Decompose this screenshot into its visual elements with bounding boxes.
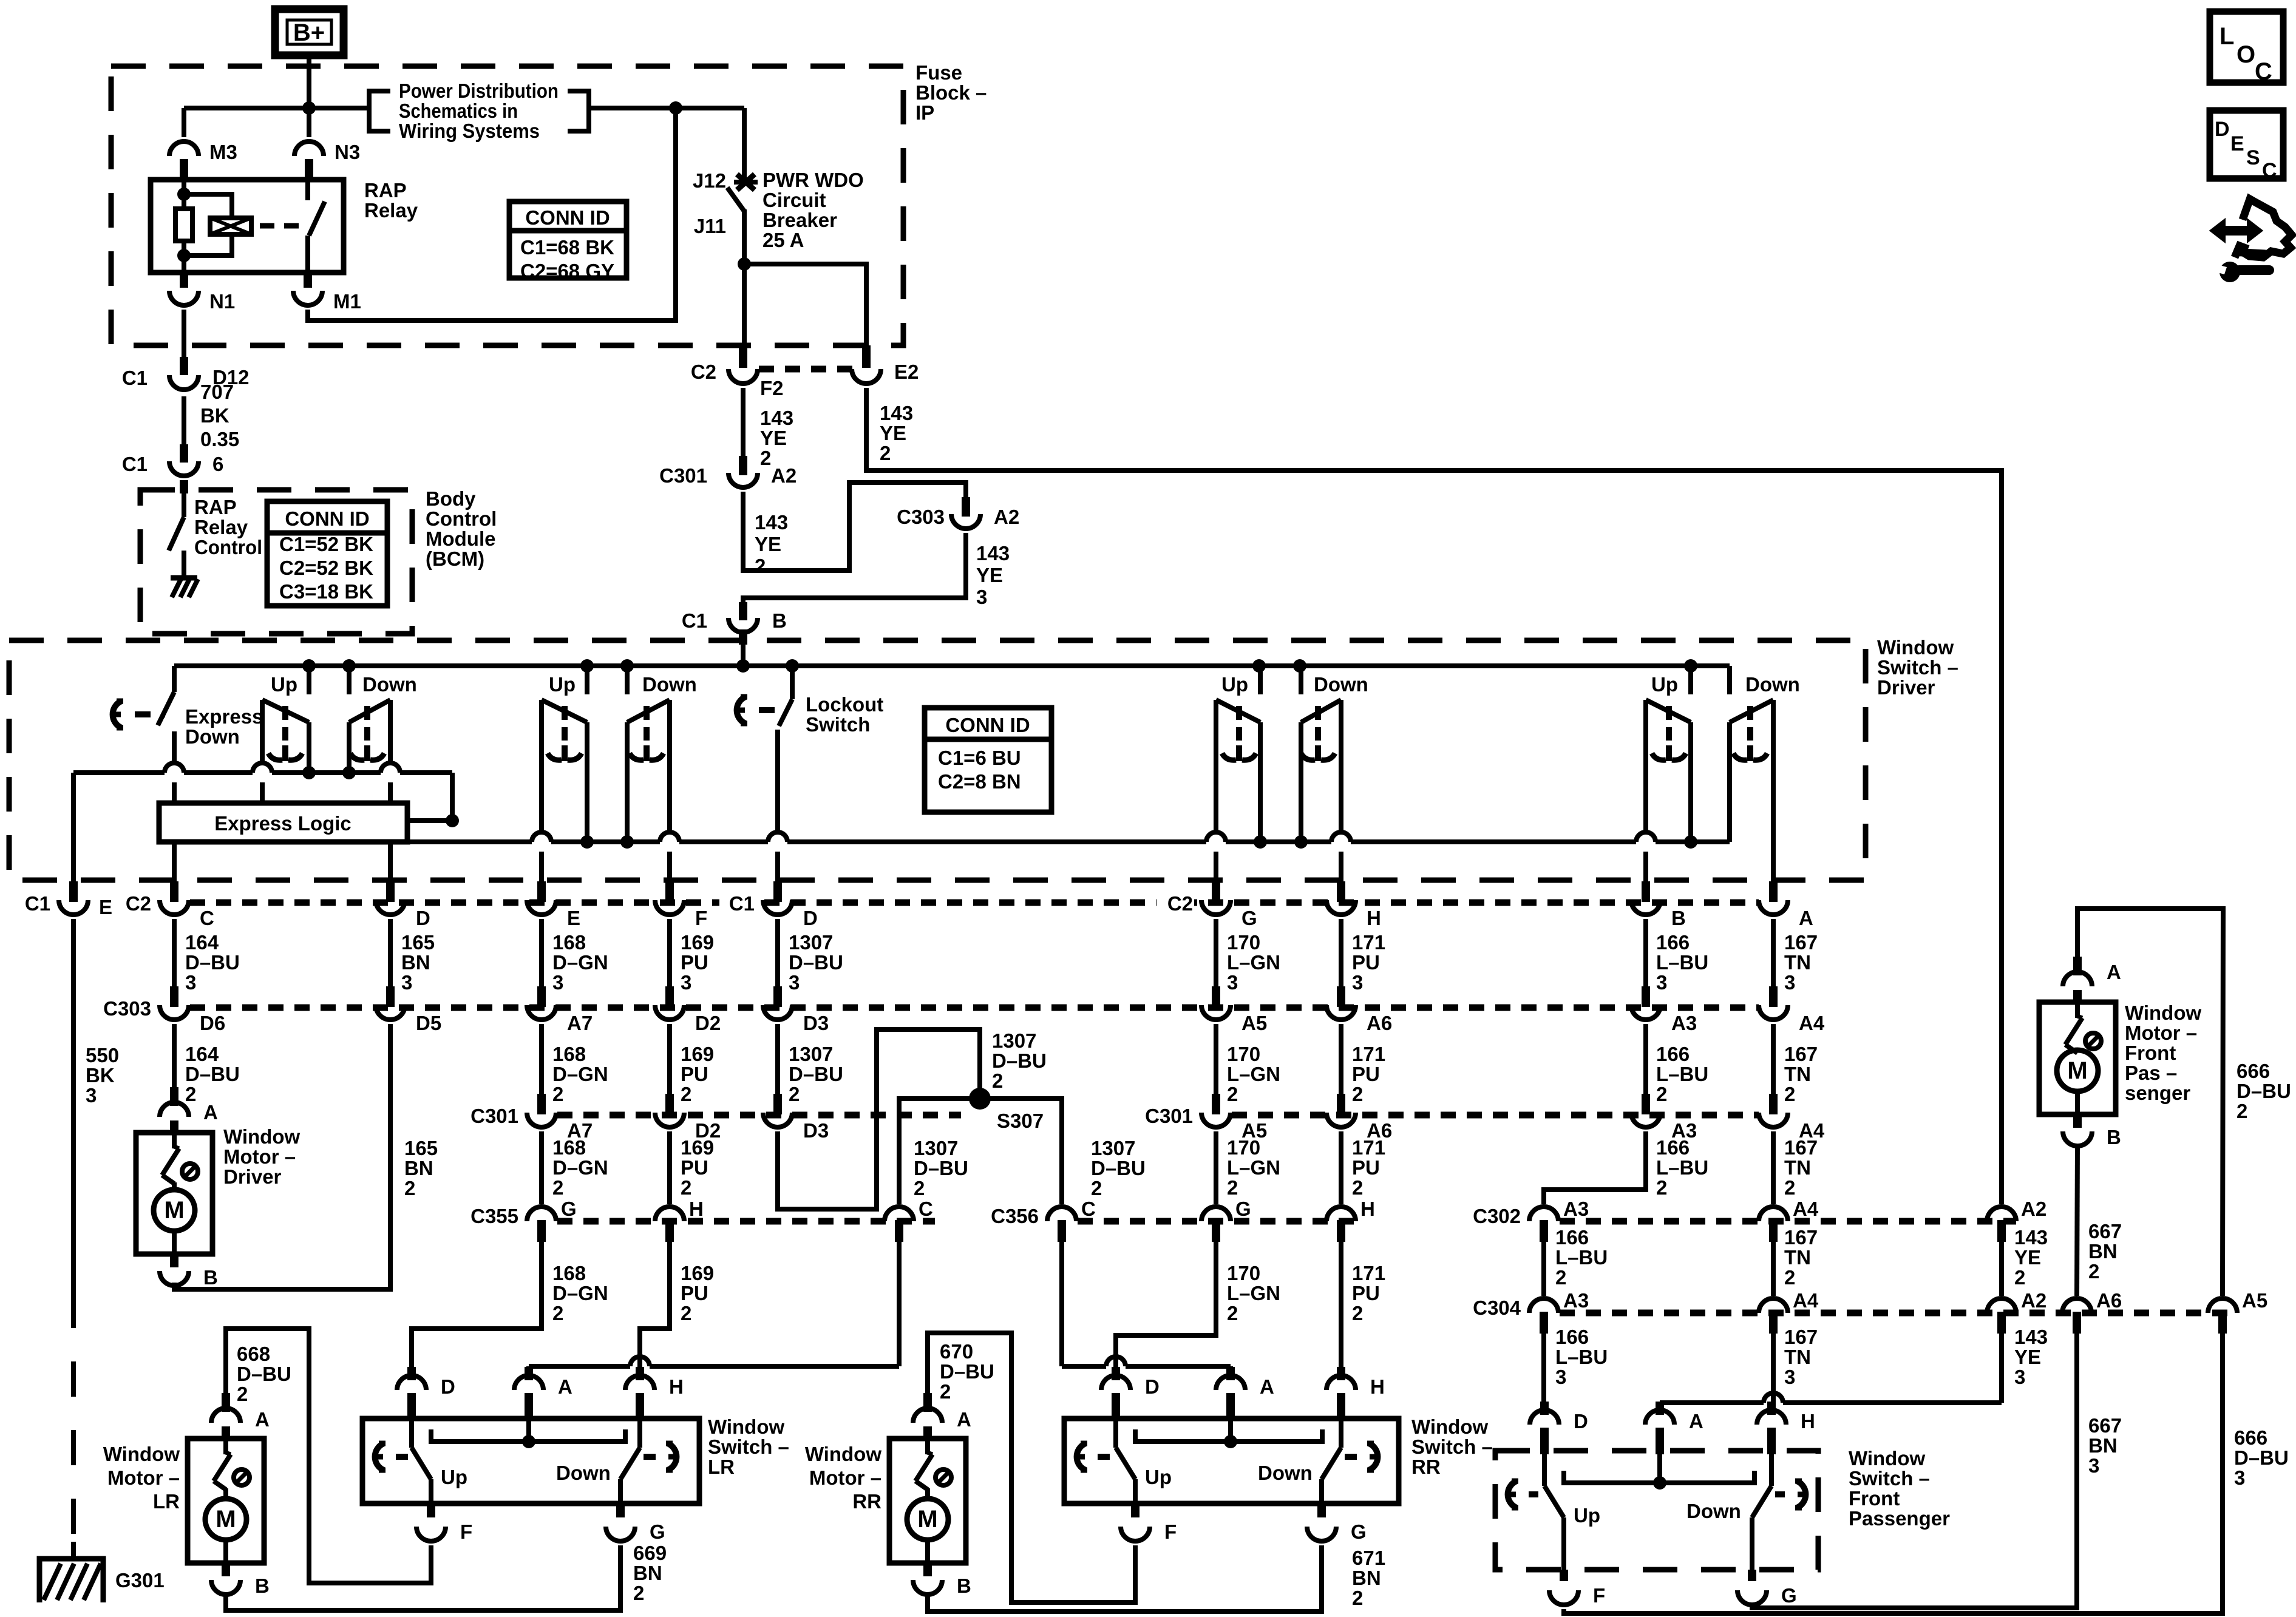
svg-text:Switch –: Switch – — [1411, 1436, 1493, 1458]
svg-text:C303: C303 — [103, 997, 151, 1020]
wire C355 H to switch H — [640, 1242, 670, 1371]
svg-text:25 A: 25 A — [763, 229, 804, 251]
junction node — [342, 766, 356, 779]
svg-text:C2: C2 — [1167, 892, 1193, 915]
label Window Motor - Front Passenger — [2125, 1002, 2201, 1104]
svg-text:M3: M3 — [209, 141, 237, 163]
svg-text:170: 170 — [1227, 1136, 1260, 1159]
switch contact up — [542, 700, 587, 842]
wire label 170 L-GN 2 — [1227, 1043, 1280, 1105]
svg-text:Up: Up — [271, 673, 297, 696]
wire — [1771, 1242, 1776, 1296]
svg-text:G: G — [561, 1198, 577, 1220]
svg-text:D–BU: D–BU — [992, 1049, 1047, 1072]
wire — [539, 919, 544, 987]
svg-text:Control: Control — [194, 536, 262, 558]
wire label 166 L-BU 2 — [1656, 1136, 1708, 1199]
connector pin B window motor FP — [2107, 1126, 2121, 1148]
svg-text:3: 3 — [401, 971, 412, 994]
svg-text:Switch –: Switch – — [1877, 656, 1958, 679]
svg-text:G301: G301 — [115, 1569, 165, 1592]
svg-text:D–BU: D–BU — [237, 1363, 291, 1385]
svg-text:CONN ID: CONN ID — [285, 507, 369, 530]
motor window motor front passenger — [2039, 957, 2116, 1146]
connector C303 pin D2 — [655, 986, 721, 1034]
svg-text:F: F — [460, 1520, 472, 1543]
label Lockout Switch — [806, 693, 883, 736]
wire label 666 D-BU 3 — [2234, 1426, 2289, 1489]
wire up feed — [585, 666, 589, 694]
wire up feed — [1258, 666, 1263, 694]
svg-text:Driver: Driver — [1877, 676, 1935, 699]
wire — [775, 919, 780, 987]
switch wiper down — [350, 706, 384, 761]
svg-text:O: O — [2237, 41, 2255, 68]
switch contact up — [1646, 700, 1691, 842]
connector pin F window switch RR — [1121, 1503, 1177, 1543]
svg-text:C302: C302 — [1473, 1205, 1521, 1227]
svg-text:Lockout: Lockout — [806, 693, 883, 716]
svg-text:Down: Down — [1745, 673, 1800, 696]
wire label 166 L-BU 2 — [1656, 1043, 1708, 1105]
svg-text:RR: RR — [852, 1490, 881, 1513]
svg-text:BK: BK — [86, 1064, 115, 1086]
connector C303 pin D5 — [376, 986, 441, 1034]
svg-text:M: M — [164, 1197, 184, 1224]
wire label 171 PU 3 — [1352, 931, 1385, 994]
connector C303 pin A3 — [1631, 986, 1697, 1034]
svg-text:G: G — [1781, 1584, 1797, 1607]
switch RAP relay control — [169, 480, 184, 574]
svg-text:Down: Down — [185, 725, 240, 748]
svg-text:Relay: Relay — [194, 516, 248, 538]
connector C302 pin A4 — [1759, 1198, 1819, 1242]
wire label 143 YE 3 — [976, 542, 1010, 608]
svg-text:C355: C355 — [470, 1205, 518, 1227]
label Up — [1651, 673, 1678, 696]
svg-text:D3: D3 — [803, 1012, 829, 1034]
svg-text:A3: A3 — [1563, 1198, 1589, 1220]
label Down — [1314, 673, 1368, 696]
connector pin B window motor RR — [957, 1575, 971, 1597]
svg-text:A2: A2 — [771, 464, 796, 487]
ground G301 — [39, 1559, 165, 1602]
connector C302 pin A3 — [1473, 1198, 1589, 1242]
wire — [742, 108, 747, 180]
wire — [775, 852, 780, 881]
connector pin H window switch RR — [1326, 1367, 1385, 1420]
connector pin B window motor LR — [255, 1575, 270, 1597]
connector C303 pin A7 — [527, 986, 593, 1034]
label RAP Relay Control — [194, 496, 262, 558]
window switch LR box — [362, 1419, 699, 1503]
wire label 167 TN 3 — [1784, 1326, 1818, 1388]
label Window Motor - LR — [103, 1443, 180, 1513]
svg-text:B: B — [255, 1575, 270, 1597]
wire label 143 YE 2 — [755, 511, 788, 577]
link lockout LR right — [644, 1443, 676, 1470]
fuse block IP dashed box — [111, 66, 903, 345]
svg-text:667: 667 — [2088, 1220, 2122, 1242]
wire — [1339, 919, 1343, 987]
svg-text:L–BU: L–BU — [1656, 1063, 1708, 1085]
connector dotted line — [759, 366, 853, 373]
svg-text:168: 168 — [552, 931, 586, 954]
svg-text:C2=8 BN: C2=8 BN — [938, 770, 1021, 793]
connector C2 pin E2 — [852, 345, 919, 384]
svg-text:S307: S307 — [997, 1110, 1044, 1132]
svg-text:Passenger: Passenger — [1849, 1507, 1950, 1530]
svg-text:D–BU: D–BU — [789, 951, 843, 974]
label Up — [441, 1466, 467, 1488]
wire — [1643, 919, 1648, 987]
switch wiper down — [630, 706, 664, 761]
svg-text:D–GN: D–GN — [552, 1063, 608, 1085]
connector C301 pin A7 — [470, 1094, 593, 1142]
connector row dotted line — [1560, 1218, 2016, 1225]
svg-text:2: 2 — [1352, 1302, 1363, 1324]
wire label 170 L-GN 2 — [1227, 1136, 1280, 1199]
svg-text:669: 669 — [633, 1542, 667, 1564]
wire up feed — [307, 666, 311, 694]
link lockout LR — [375, 1443, 408, 1470]
junction node — [620, 659, 634, 673]
wire label 171 PU 2 — [1352, 1136, 1385, 1199]
connector C1 pin 6 — [122, 444, 224, 476]
connector row dotted line — [1078, 1218, 1357, 1225]
svg-text:H: H — [1360, 1198, 1375, 1220]
svg-text:Switch: Switch — [806, 713, 870, 736]
connector C303 pin A6 — [1326, 986, 1392, 1034]
svg-text:A2: A2 — [994, 506, 1019, 528]
wire label 167 TN 2 — [1784, 1136, 1818, 1199]
svg-text:Driver: Driver — [223, 1165, 282, 1188]
svg-text:C: C — [919, 1198, 933, 1220]
svg-text:Switch –: Switch – — [1849, 1467, 1930, 1490]
svg-text:YE: YE — [760, 427, 787, 449]
svg-text:Window: Window — [1411, 1415, 1488, 1438]
wire label 170 L-GN 2 — [1227, 1262, 1280, 1324]
svg-text:D–BU: D–BU — [185, 951, 240, 974]
svg-text:A4: A4 — [1793, 1198, 1819, 1220]
connector C302 pin A2 — [1987, 1198, 2046, 1242]
wire switch F to motor RR A — [928, 1333, 1135, 1602]
junction node — [177, 249, 191, 262]
svg-text:RR: RR — [1411, 1456, 1441, 1478]
svg-text:J12: J12 — [693, 169, 726, 192]
svg-text:A: A — [2107, 961, 2121, 983]
svg-text:D2: D2 — [695, 1012, 721, 1034]
wire — [667, 1131, 672, 1204]
label Down — [1686, 1500, 1741, 1522]
switch express down — [158, 692, 174, 763]
svg-text:168: 168 — [552, 1043, 586, 1065]
wire express down drop — [172, 666, 177, 692]
svg-text:2: 2 — [1656, 1083, 1667, 1105]
connector C356 pin C — [991, 1198, 1096, 1242]
svg-text:YE: YE — [2014, 1346, 2041, 1368]
connector C2 pin A — [1759, 881, 1813, 929]
connector C1 pin D — [719, 881, 818, 929]
connector pin A window switch LR — [514, 1367, 572, 1420]
connector pin G window switch FP — [1737, 1570, 1797, 1607]
wire express logic to common — [407, 773, 452, 821]
svg-text:2: 2 — [1784, 1176, 1795, 1199]
wire — [1771, 700, 1776, 881]
svg-text:L–BU: L–BU — [1656, 1156, 1708, 1179]
wire C304 A6 up to motor B — [2077, 1144, 2077, 1296]
svg-text:171: 171 — [1352, 1262, 1385, 1284]
svg-text:Window: Window — [103, 1443, 180, 1465]
svg-text:Front: Front — [2125, 1042, 2176, 1064]
svg-text:Window: Window — [1849, 1447, 1925, 1470]
svg-text:LR: LR — [153, 1490, 180, 1513]
svg-text:707: 707 — [200, 381, 234, 403]
svg-text:Front: Front — [1849, 1487, 1900, 1510]
svg-text:3: 3 — [552, 971, 563, 994]
svg-text:A7: A7 — [567, 1012, 593, 1034]
wire label 168 D-GN 3 — [552, 931, 608, 994]
link lockout RR — [1077, 1443, 1110, 1470]
wire label 667 BN 3 — [2088, 1414, 2122, 1477]
conn id table fuse block — [509, 202, 627, 282]
wire — [741, 388, 746, 456]
junction node — [302, 766, 316, 779]
svg-text:Down: Down — [362, 673, 417, 696]
connector row dotted line — [557, 1218, 935, 1225]
svg-text:C1: C1 — [682, 609, 707, 632]
junction node — [1684, 659, 1697, 673]
wire label 165 BN 2 — [404, 1137, 438, 1199]
svg-text:L–BU: L–BU — [1555, 1346, 1608, 1368]
svg-text:PU: PU — [1352, 1282, 1380, 1304]
switch contact down — [627, 700, 670, 842]
svg-text:Body: Body — [426, 487, 476, 510]
label Up — [1221, 673, 1248, 696]
junction node — [302, 659, 316, 673]
connector C304 pin A3 — [1473, 1289, 1589, 1334]
svg-text:L: L — [2220, 23, 2234, 50]
wire — [388, 782, 393, 803]
wire — [775, 1024, 780, 1094]
connector C1 pin E — [25, 881, 112, 918]
svg-text:3: 3 — [185, 971, 196, 994]
svg-text:C304: C304 — [1473, 1297, 1521, 1319]
wire bus corner to pair4 down — [1727, 666, 1732, 694]
connector C304 pin A2 — [1987, 1289, 2046, 1334]
wire — [1339, 852, 1343, 881]
wire C304 A4 to switch H — [1771, 1334, 1776, 1406]
svg-text:BN: BN — [633, 1562, 662, 1584]
junction node — [669, 101, 682, 115]
connector row dotted line — [1560, 1310, 2237, 1317]
svg-text:B: B — [957, 1575, 971, 1597]
wire label 164 D-BU 2 — [185, 1043, 240, 1105]
svg-text:G: G — [1351, 1520, 1367, 1543]
wire up feed — [1688, 666, 1693, 694]
svg-text:Wiring Systems: Wiring Systems — [399, 120, 540, 142]
svg-text:550: 550 — [86, 1044, 119, 1066]
svg-text:2: 2 — [1784, 1266, 1795, 1289]
svg-text:3: 3 — [1227, 971, 1238, 994]
svg-text:Down: Down — [556, 1462, 611, 1484]
switch contact up — [1216, 700, 1260, 842]
svg-text:2: 2 — [755, 555, 766, 577]
connector C301 pin A2 — [659, 456, 796, 487]
svg-text:BN: BN — [401, 951, 430, 974]
label Up — [1574, 1504, 1600, 1527]
bracket note Power Distribution — [369, 80, 589, 142]
svg-text:YE: YE — [755, 533, 781, 555]
svg-text:A: A — [1260, 1375, 1274, 1398]
svg-text:PWR WDO: PWR WDO — [763, 169, 864, 191]
svg-text:A5: A5 — [1241, 1012, 1267, 1034]
svg-text:Motor –: Motor – — [107, 1466, 180, 1489]
svg-text:A6: A6 — [1367, 1012, 1392, 1034]
junction node — [302, 101, 316, 115]
switch contact down — [1301, 700, 1341, 842]
svg-text:L–BU: L–BU — [1656, 951, 1708, 974]
switch FP down contact — [1752, 1454, 1771, 1570]
svg-text:D3: D3 — [803, 1119, 829, 1142]
svg-text:2: 2 — [1352, 1176, 1363, 1199]
svg-text:PU: PU — [681, 951, 708, 974]
connector C2 pin C — [126, 881, 214, 929]
svg-text:S: S — [2246, 146, 2260, 169]
svg-text:166: 166 — [1555, 1226, 1589, 1249]
svg-text:2: 2 — [1784, 1083, 1795, 1105]
svg-text:2: 2 — [681, 1302, 691, 1324]
wire label 667 BN 2 — [2088, 1220, 2122, 1283]
connector C304 pin A6 — [2062, 1289, 2122, 1334]
svg-text:169: 169 — [681, 1262, 714, 1284]
svg-text:166: 166 — [1656, 931, 1690, 954]
svg-text:F2: F2 — [760, 377, 784, 399]
label Up — [1145, 1466, 1172, 1488]
wire — [182, 396, 186, 444]
svg-text:C1=6 BU: C1=6 BU — [938, 747, 1021, 769]
connector C304 pin A5 — [2208, 1289, 2267, 1334]
wire label 164 D-BU 3 — [185, 931, 240, 994]
svg-text:2: 2 — [1352, 1083, 1363, 1105]
motor window motor RR — [889, 1393, 966, 1595]
svg-text:143: 143 — [760, 407, 793, 429]
svg-text:667: 667 — [2088, 1414, 2122, 1437]
connector C303 pin D6 — [103, 986, 225, 1034]
svg-text:D–GN: D–GN — [552, 1282, 608, 1304]
wire motor B to D5 — [174, 1024, 390, 1289]
svg-text:D–BU: D–BU — [914, 1157, 968, 1179]
svg-text:3: 3 — [1784, 1366, 1795, 1388]
wire — [1339, 1024, 1343, 1094]
wire C355 G to switch D — [412, 1242, 542, 1371]
wire — [172, 1024, 177, 1094]
svg-text:167: 167 — [1784, 1043, 1818, 1065]
svg-text:C2: C2 — [126, 892, 151, 915]
connector C1 pin D12 — [122, 357, 250, 390]
svg-text:6: 6 — [212, 453, 223, 475]
svg-text:PU: PU — [1352, 951, 1380, 974]
link to lockout — [113, 701, 165, 728]
svg-text:G: G — [1241, 907, 1257, 929]
svg-text:IP: IP — [915, 101, 934, 124]
link lockout RR right — [1345, 1443, 1377, 1470]
svg-text:BN: BN — [404, 1157, 433, 1179]
connector pin B window motor driver — [203, 1266, 218, 1289]
svg-text:2: 2 — [185, 1083, 196, 1105]
wire label 169 PU 2 — [681, 1262, 714, 1324]
wire label 168 D-GN 2 — [552, 1136, 608, 1199]
svg-text:YE: YE — [976, 564, 1003, 586]
svg-text:J11: J11 — [694, 215, 726, 237]
svg-text:Express: Express — [185, 705, 263, 728]
svg-text:D–BU: D–BU — [789, 1063, 843, 1085]
motor window motor LR — [188, 1393, 264, 1595]
switch wiper down — [1733, 706, 1767, 761]
svg-text:Motor –: Motor – — [2125, 1022, 2197, 1044]
wire N1 down — [182, 310, 186, 345]
svg-text:Circuit: Circuit — [763, 189, 826, 211]
switch wiper up — [548, 706, 582, 761]
svg-text:C3=18 BK: C3=18 BK — [279, 580, 373, 603]
svg-text:Schematics in: Schematics in — [399, 100, 518, 122]
svg-text:Block –: Block – — [915, 81, 987, 104]
svg-text:Window: Window — [708, 1415, 784, 1438]
wire label 670 D-BU 2 — [940, 1340, 994, 1403]
svg-text:1307: 1307 — [789, 1043, 833, 1065]
svg-text:Down: Down — [1258, 1462, 1313, 1484]
svg-text:H: H — [1801, 1410, 1815, 1432]
connector pin N3 — [294, 141, 360, 181]
svg-text:N1: N1 — [209, 290, 235, 313]
svg-text:170: 170 — [1227, 1262, 1260, 1284]
connector C303 pin A2 — [897, 497, 1019, 529]
svg-text:M1: M1 — [333, 290, 361, 313]
connector pin D window switch FP — [1530, 1402, 1588, 1454]
svg-text:H: H — [1370, 1375, 1385, 1398]
svg-text:PU: PU — [681, 1282, 708, 1304]
wire label 169 PU 3 — [681, 931, 714, 994]
wire — [388, 919, 393, 987]
svg-text:A2: A2 — [2021, 1289, 2046, 1312]
connector C2 pin B — [1631, 881, 1686, 929]
wire label 167 TN 3 — [1784, 931, 1818, 994]
svg-text:D: D — [2215, 118, 2230, 141]
svg-text:3: 3 — [976, 586, 987, 608]
svg-text:C301: C301 — [659, 464, 707, 487]
svg-text:C2=68 GY: C2=68 GY — [520, 260, 614, 282]
wire label 169 PU 2 — [681, 1136, 714, 1199]
svg-text:2: 2 — [940, 1380, 951, 1403]
wire — [1643, 852, 1648, 881]
svg-text:E: E — [2230, 132, 2244, 155]
window switch front passenger dashed box — [1495, 1451, 1818, 1570]
connector C355 pin H — [655, 1198, 704, 1242]
wire — [1771, 1024, 1776, 1094]
svg-text:RAP: RAP — [194, 496, 237, 518]
svg-text:Power Distribution: Power Distribution — [399, 80, 559, 102]
svg-text:Window: Window — [1877, 636, 1954, 659]
label Down — [642, 673, 697, 696]
logic block Express Logic — [159, 803, 407, 842]
svg-text:D5: D5 — [416, 1012, 441, 1034]
svg-text:D: D — [416, 907, 430, 929]
svg-text:D–BU: D–BU — [1091, 1157, 1146, 1179]
connector C303 pin A4 — [1759, 986, 1825, 1034]
svg-text:C301: C301 — [1145, 1105, 1193, 1127]
window switch driver dashed box — [9, 640, 1866, 880]
switch contact up — [262, 700, 309, 773]
